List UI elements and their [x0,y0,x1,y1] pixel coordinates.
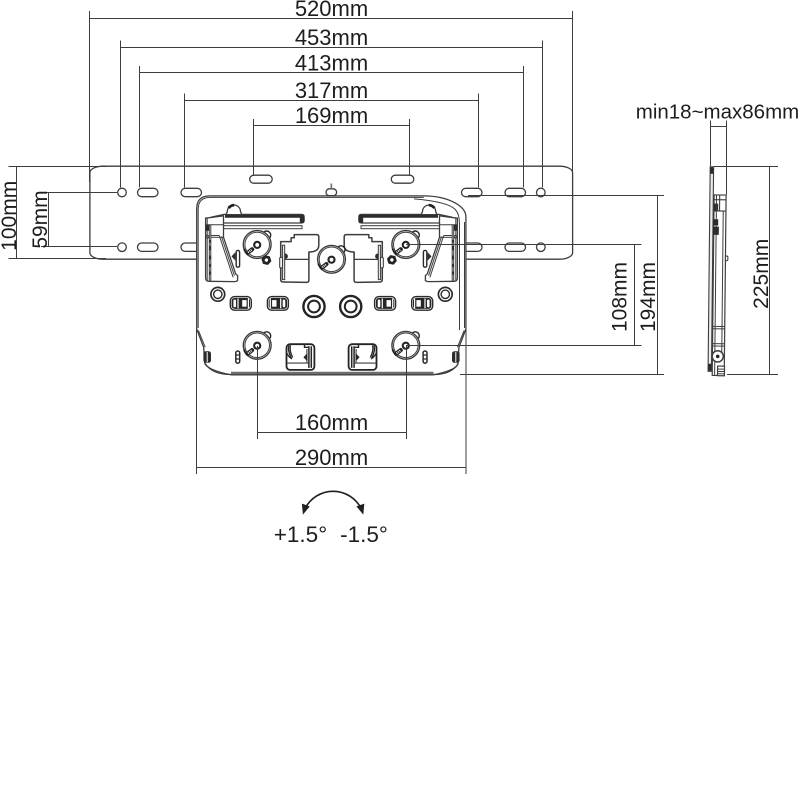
dim 194mm line [460,196,664,375]
bracket inner fold line top/left [198,197,424,328]
knob top-right [392,231,420,259]
dim 100mm line [9,167,107,259]
side tab right [452,351,460,363]
dim 413mm line [140,66,524,188]
plate slot row1 c [462,188,483,196]
plate slot row1 d [505,188,526,196]
side view pivot [712,351,723,362]
dim 160mm line [258,346,407,439]
side view right bump [725,256,727,261]
plate hole top-left [118,188,127,197]
bracket inner slope right [457,331,464,348]
dim 59mm line [41,193,117,247]
svg-text:520mm: 520mm [295,0,368,21]
knob center [318,245,346,273]
plate short slot left (169mm target) [250,175,273,183]
plate short slot right (169mm target) [391,175,414,183]
hex nut right [387,255,397,264]
dim 290mm line [197,329,467,474]
bracket inner slope left [198,331,205,348]
knob bottom-right [392,331,420,359]
svg-text:194mm: 194mm [637,262,660,332]
tilt arrow right [356,504,364,515]
clip 4 [412,297,433,311]
mid small circle left [211,287,225,301]
svg-text:-1.5°: -1.5° [340,522,388,547]
bracket inner fold line right edge thin [464,222,466,328]
clip 2 [267,297,288,311]
side view clamp marks [713,219,718,225]
side view hook top [714,195,726,211]
dim 108mm line [406,245,642,346]
plate slot row1 b [181,188,202,196]
central bracket outline [197,196,466,375]
svg-text:290mm: 290mm [295,445,368,470]
center slot pin [330,184,332,189]
clip 3 [375,297,396,311]
tilt arc [305,491,362,509]
dim 520mm line [90,11,573,182]
svg-text:100mm: 100mm [0,181,21,251]
right hook assembly (mirrored) [344,205,457,370]
svg-text:453mm: 453mm [295,25,368,50]
bracket inner fold line right corner [414,199,460,330]
tilt arrow left [302,504,310,515]
wall plate outline [90,166,573,259]
dim 453mm line [121,41,543,188]
knob top-left [243,231,271,259]
plate slot row2 b [181,243,202,251]
svg-text:225mm: 225mm [750,239,773,309]
plate slot row2 a [138,243,159,251]
bracket bottom edge outline [206,364,459,375]
dotted slot right [423,351,427,363]
bracket bottom thick edge [231,372,434,375]
side view bracket bar [712,195,726,376]
dotted slot left [236,351,240,363]
svg-text:169mm: 169mm [295,103,368,128]
dim 225mm line [714,167,778,375]
plate slot row1 a [138,188,159,196]
plate slot row2 c [462,243,483,251]
svg-text:59mm: 59mm [29,190,52,248]
svg-text:413mm: 413mm [295,50,368,75]
center slot on top edge [326,189,337,196]
dim min-max line [711,121,727,195]
knob bottom-left [243,331,271,359]
side view foot [718,366,725,376]
plate hole bottom-left [118,243,127,252]
plate hole top-right [537,188,546,197]
plate hole bottom-right [537,243,546,252]
plate slot row2 d [505,243,526,251]
svg-text:+1.5°: +1.5° [274,522,327,547]
clip 1 [230,297,251,311]
side view wall strip [708,167,714,372]
dim 169mm line [254,119,410,176]
svg-text:min18~max86mm: min18~max86mm [636,100,800,123]
hex nut left [261,256,271,265]
side tab left [203,351,211,363]
svg-text:317mm: 317mm [295,78,368,103]
dim 317mm line [185,94,479,188]
side view inner line [715,195,724,375]
svg-text:108mm: 108mm [609,262,632,332]
svg-text:160mm: 160mm [295,410,368,435]
side view division lines [713,326,725,346]
mid small circle right [438,287,452,301]
mid ring right [340,296,361,317]
mid ring left [303,296,324,317]
left hook assembly [206,205,319,370]
